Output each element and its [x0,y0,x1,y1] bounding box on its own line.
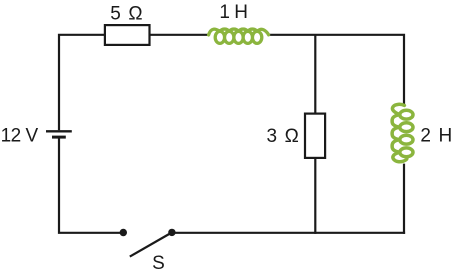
svg-text:2 H: 2 H [420,125,451,146]
inductor L2 2H coil [392,104,413,161]
wire from inductor L1 along top to right corner down to inductor L2 [268,35,404,105]
battery 12V short plate [52,136,66,139]
wire bottom-left segment [59,138,123,233]
wire right branch below inductor L2 [403,164,405,234]
resistor R2 3 ohm box [305,114,325,158]
resistor R1 5 ohm box [105,25,150,45]
svg-text:1 H: 1 H [219,2,247,23]
svg-text:S: S [152,253,164,272]
svg-text:12 V: 12 V [1,125,39,146]
wire bottom-right segment [172,232,405,234]
switch blade [130,233,171,257]
battery 12V long plate [46,130,72,132]
inductor L1 1H coil [209,29,269,43]
wire top-left corner segment [59,35,105,130]
switch node left [120,229,127,236]
svg-text:5 Ω: 5 Ω [110,4,142,25]
wire middle branch bottom [314,158,316,234]
switch node right [168,229,175,236]
wire middle branch top [314,35,316,114]
wire between resistor R1 and inductor L1 [150,34,210,36]
svg-text:3 Ω: 3 Ω [267,126,299,147]
